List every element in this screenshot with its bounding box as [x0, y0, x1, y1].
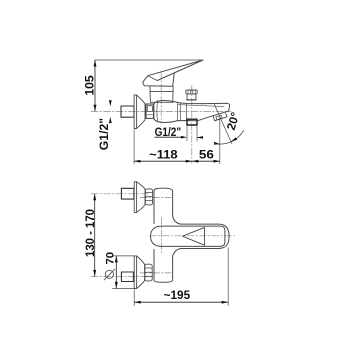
diverter knob — [186, 90, 197, 94]
svg-text:G1/2": G1/2" — [97, 118, 111, 150]
dimension ~118 / 56 line — [134, 160, 220, 162]
centerline bottom leg — [140, 272, 171, 274]
extension line left (wall plane) — [133, 130, 135, 164]
top escutcheon cone — [137, 182, 145, 213]
arrowheads 130-170 — [93, 194, 96, 277]
centerline diverter axis / extension — [191, 86, 193, 164]
svg-text:105: 105 — [83, 75, 97, 96]
wall pipe nipple — [121, 106, 134, 117]
aerator — [213, 113, 227, 120]
escutcheon cone — [137, 95, 145, 129]
bottom union nut ribs — [145, 268, 152, 277]
arrowheads dia70 — [115, 256, 118, 289]
bottom pipe nipple — [121, 272, 133, 282]
arrowheads ~195 — [134, 301, 228, 304]
barrel seam left — [156, 101, 159, 123]
spout plan outline — [173, 216, 230, 257]
lever triangle — [183, 227, 205, 245]
~195 extension left — [133, 290, 135, 306]
centerline top leg — [91, 193, 148, 195]
bottom escutcheon rim — [134, 256, 136, 289]
arrowheads ~118 / 56 — [134, 160, 220, 163]
centerline bottom pipe — [91, 275, 148, 277]
dimension 130-170 line — [94, 194, 96, 276]
handle crease — [148, 76, 158, 81]
centerline handle axis — [160, 72, 162, 124]
arrowheads 105 — [94, 60, 97, 111]
spout inner top line — [178, 105, 225, 107]
dia70 extension top — [113, 255, 136, 257]
dimension dia70 line — [115, 256, 117, 289]
body top edge — [150, 101, 173, 103]
arrowheads 20 degree arc — [214, 137, 237, 145]
~195 extension right — [227, 248, 229, 306]
dimension 105 line — [94, 61, 96, 112]
svg-text:~118: ~118 — [149, 148, 178, 162]
centerline main axis — [150, 235, 237, 237]
outlet extension lines — [186, 126, 188, 141]
top escutcheon rim — [134, 182, 136, 213]
extension line right (aerator axis vertical) — [219, 117, 221, 164]
G1/2 callout leader (middle) — [155, 136, 182, 138]
faucet body barrel + spout outline — [154, 101, 230, 123]
svg-text:~195: ~195 — [164, 288, 191, 302]
hex nut — [146, 104, 154, 118]
dimension ~195 — [134, 301, 228, 303]
centerline body axis — [91, 110, 231, 112]
top union nut ribs — [145, 192, 152, 201]
centerline top leg axis — [140, 197, 171, 199]
top pipe nipple — [121, 188, 133, 199]
handle base / cartridge collar — [150, 86, 173, 102]
barrel seam right — [177, 103, 180, 122]
extension line top (lever tip) — [95, 59, 203, 61]
svg-text:70: 70 — [105, 252, 117, 265]
svg-text:G1/2": G1/2" — [155, 125, 182, 139]
arrowheads G1/2 outlet — [181, 136, 203, 139]
bottom escutcheon cone — [137, 256, 145, 289]
svg-text:130 - 170: 130 - 170 — [83, 209, 97, 257]
spout root seam — [185, 104, 187, 121]
lever handle — [143, 60, 203, 86]
handle plan outline — [151, 226, 225, 246]
G1/2 thread dim arrows (left pipe) — [109, 100, 112, 123]
svg-text:56: 56 — [199, 148, 214, 162]
escutcheon rim — [134, 95, 137, 129]
shower outlet — [187, 119, 197, 125]
centerline cartridge vertical — [160, 218, 162, 255]
20 degree arc — [216, 130, 243, 144]
20 degree slant line — [214, 104, 232, 143]
body tube — [154, 188, 173, 223]
dia70 extension bottom — [113, 287, 136, 289]
